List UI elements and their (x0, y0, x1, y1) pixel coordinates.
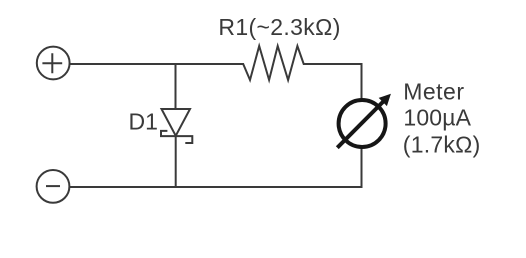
svg-text:R1(~2.3kΩ): R1(~2.3kΩ) (218, 14, 340, 40)
svg-text:100µA: 100µA (403, 105, 471, 131)
svg-text:Meter: Meter (403, 78, 464, 104)
svg-text:(1.7kΩ): (1.7kΩ) (403, 132, 481, 158)
svg-text:D1: D1 (129, 109, 158, 135)
